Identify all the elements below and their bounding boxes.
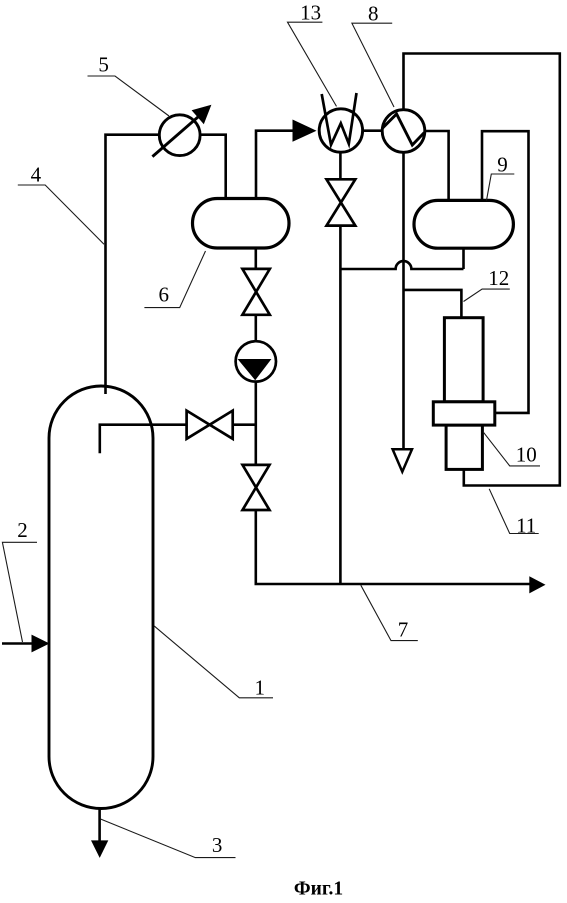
- svg-text:10: 10: [516, 443, 537, 467]
- svg-text:3: 3: [212, 833, 223, 857]
- svg-text:12: 12: [488, 266, 509, 290]
- svg-text:Фиг.1: Фиг.1: [294, 879, 343, 900]
- svg-text:6: 6: [159, 283, 170, 307]
- svg-text:2: 2: [17, 518, 28, 542]
- svg-text:7: 7: [398, 618, 409, 642]
- svg-text:8: 8: [368, 2, 379, 26]
- svg-text:5: 5: [98, 53, 109, 77]
- svg-text:9: 9: [497, 153, 508, 177]
- svg-text:4: 4: [31, 163, 42, 187]
- svg-text:11: 11: [516, 514, 536, 538]
- svg-text:1: 1: [254, 676, 265, 700]
- svg-text:13: 13: [300, 1, 321, 25]
